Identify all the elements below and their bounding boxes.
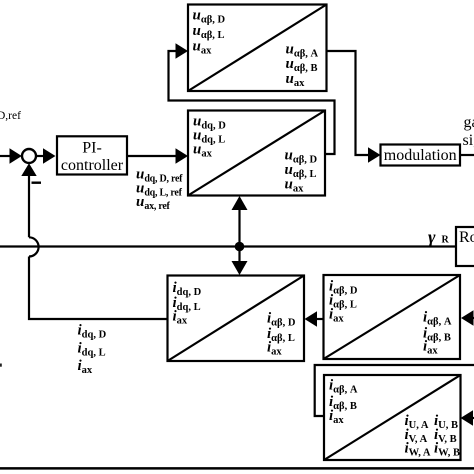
label i_U,A i_V,A i_W,A (B5 right inputs col A) bbox=[405, 413, 431, 459]
wire reference input into summing junction bbox=[0, 148, 22, 163]
label i_U,B i_V,B i_W,B (B5 right inputs col B) bbox=[434, 413, 460, 459]
svg-text:γ: γ bbox=[428, 227, 436, 247]
label u_dq,D,ref u_dq,L,ref u_ax,ref bbox=[136, 167, 183, 213]
summing junction bbox=[22, 149, 36, 163]
label i_ab,A i_ab,B i_ax (B5 left outputs) bbox=[329, 378, 358, 427]
transform box B4 (alpha-beta AB to DL) bbox=[324, 275, 461, 359]
wire vertical B2 to B3 with double arrows bbox=[232, 196, 248, 275]
wire feedback from B3 to summing junction with crossover hop bbox=[21, 163, 167, 319]
transform box B5 (UVW to alpha-beta) bbox=[324, 375, 461, 460]
label u_ab,D u_ab,L u_ax (B2 right outputs) bbox=[285, 148, 318, 195]
svg-text:D,ref: D,ref bbox=[0, 110, 21, 122]
transform box B2 (dq to alpha-beta) bbox=[188, 111, 325, 196]
label u_ab,A u_ab,B u_ax (B1 right outputs) bbox=[286, 42, 319, 90]
transform box B1 (alpha-beta DL to AB) bbox=[188, 5, 327, 92]
junction dot bbox=[235, 242, 245, 252]
label i_ab,D i_ab,L i_ax (B4 left outputs) bbox=[329, 279, 358, 325]
transform box B3 (alpha-beta to dq) bbox=[168, 276, 305, 362]
svg-text:R: R bbox=[442, 235, 450, 246]
bottom border line bbox=[0, 467, 474, 470]
label gamma_R bbox=[428, 227, 450, 247]
svg-text:controller: controller bbox=[61, 157, 124, 174]
clipped glyph fragment at left edge bbox=[0, 364, 2, 367]
wire summing junction to PI controller bbox=[36, 148, 56, 163]
svg-text:Rot: Rot bbox=[459, 229, 474, 246]
wire into B4 right from edge bbox=[461, 310, 474, 325]
label gate signals (clipped) bbox=[463, 114, 474, 149]
svg-text:sig: sig bbox=[463, 132, 474, 149]
wire B1 output to modulation bbox=[327, 51, 381, 163]
wire B4 to B3 bbox=[305, 311, 324, 326]
label u_dq,D u_dq,L u_ax (B2 left inputs) bbox=[193, 114, 226, 160]
modulation box bbox=[381, 145, 461, 166]
label i_dq,D i_dq,L i_ax (B3 left outputs) bbox=[173, 280, 202, 327]
svg-text:PI-: PI- bbox=[82, 140, 102, 157]
wire modulation output to right edge bbox=[460, 154, 474, 156]
wire rotor angle line bbox=[0, 245, 456, 247]
label u_ab,D u_ab,L u_ax (B1 left inputs) bbox=[193, 8, 226, 57]
wire into B5 right from edge bbox=[461, 410, 474, 425]
label i_ab,D i_ab,L i_ax (B3 right inputs) bbox=[267, 311, 296, 358]
minus sign bbox=[32, 182, 42, 184]
label i_dq,D i_dq,L i_ax (feedback) bbox=[78, 323, 107, 377]
svg-text:modulation: modulation bbox=[384, 147, 457, 164]
wire B2 output around to B1 input bbox=[169, 43, 335, 154]
wire PI controller to B2 bbox=[128, 148, 188, 163]
rotor position box (clipped at right edge) bbox=[456, 227, 474, 266]
wire B5 output loop to right edge bbox=[315, 365, 474, 416]
PI controller box bbox=[57, 136, 127, 174]
label i_ab,A i_ab,B i_ax (B4 right inputs) bbox=[423, 310, 452, 357]
svg-text:ga: ga bbox=[464, 114, 474, 131]
